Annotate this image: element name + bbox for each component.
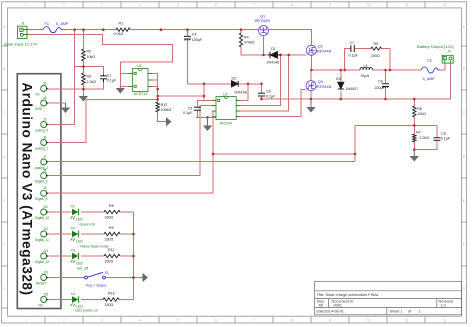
Arduino pin J8 (35, 168, 48, 183)
wire U2 VS riser (236, 55, 289, 111)
svg-text:red_off: red_off (77, 266, 88, 270)
svg-text:IRFZ44N: IRFZ44N (316, 85, 332, 89)
diode D3 (338, 82, 344, 89)
ground (U1) (117, 86, 124, 92)
svg-text:Q1: Q1 (260, 14, 265, 18)
svg-text:Solar Input 12-17V: Solar Input 12-17V (4, 41, 38, 46)
svg-text:5: 5 (177, 319, 179, 323)
svg-text:4: 4 (139, 3, 141, 7)
svg-text:100µF: 100µF (192, 38, 203, 42)
capacitor C1 (100, 75, 107, 83)
resistor R5 (371, 47, 382, 50)
op-amp U1 (ACS712 current sensor IC) (128, 69, 152, 92)
svg-text:C5: C5 (188, 106, 193, 110)
LED X1 (71, 209, 79, 219)
capacitor C9 (433, 138, 440, 141)
svg-text:F: F (3, 243, 5, 247)
svg-text:0.1µF: 0.1µF (349, 53, 359, 57)
connector J2 (442, 55, 453, 63)
svg-text:Digital_9: Digital_9 (35, 179, 48, 183)
svg-text:R11: R11 (108, 248, 114, 252)
wire solar- loop through U1 (24, 35, 173, 87)
svg-text:1: 1 (400, 310, 402, 314)
transistor Q1 (IRFZ44N) (259, 26, 269, 36)
wire R6 leads (413, 99, 415, 106)
node arrow (S1 row) (142, 274, 148, 281)
wire U2 pin1 riser (203, 84, 205, 101)
svg-text:330Ω: 330Ω (105, 259, 114, 263)
inductor L1 (360, 67, 372, 70)
svg-text:2: 2 (63, 319, 65, 323)
wire solar sense vertical to analog_0 (47, 30, 75, 125)
svg-text:6: 6 (215, 3, 217, 7)
svg-text:LED: LED (76, 239, 83, 243)
svg-text:analog_0: analog_0 (35, 128, 48, 132)
resistor R12 (156, 102, 159, 112)
wire analog_1 to U1 out node (47, 99, 158, 142)
svg-text:E: E (463, 199, 465, 203)
svg-text:J7: J7 (43, 155, 47, 159)
svg-text:D1: D1 (271, 47, 276, 51)
ground (divider R3) (80, 95, 87, 101)
svg-text:F1: F1 (45, 22, 49, 26)
Arduino pin J12 (35, 227, 49, 242)
Arduino pin J3 (35, 81, 48, 96)
svg-text:C6: C6 (266, 90, 271, 94)
LED X2 (71, 231, 79, 241)
diode D1 (268, 52, 281, 59)
svg-text:IR2104: IR2104 (220, 121, 232, 125)
top band ticks (45, 2, 425, 8)
svg-text:0.1µF: 0.1µF (441, 137, 451, 141)
svg-text:200Ω: 200Ω (371, 54, 380, 58)
svg-text:F2: F2 (428, 59, 432, 63)
diode D2 (232, 81, 239, 87)
wire GND J4 (47, 102, 66, 104)
svg-text:Key = Space: Key = Space (86, 284, 106, 288)
svg-text:E: E (3, 199, 5, 203)
svg-text:1N4148: 1N4148 (234, 91, 247, 95)
svg-text:R7: R7 (416, 131, 421, 135)
wire D3 leads (340, 70, 342, 82)
svg-text:X1: X1 (71, 205, 75, 209)
svg-text:J8: J8 (43, 168, 47, 172)
wire battery sense line (355, 125, 414, 161)
svg-text:R9: R9 (109, 226, 114, 230)
svg-text:Arduino Nano V3 (ATmega328): Arduino Nano V3 (ATmega328) (20, 82, 35, 295)
svg-text:1: 1 (25, 3, 27, 7)
svg-text:J3: J3 (43, 81, 47, 85)
resistor R2 (82, 49, 85, 61)
svg-text:L1: L1 (364, 64, 368, 68)
svg-text:J14: J14 (43, 249, 48, 253)
capacitor C4 (electrolytic) (184, 36, 191, 40)
capacitor C7 (351, 45, 354, 52)
svg-text:LED power on: LED power on (75, 309, 98, 313)
wire R4 leads (240, 30, 242, 33)
svg-text:220µF: 220µF (375, 86, 386, 90)
resistor R3 (82, 73, 85, 85)
wire C1 bottom / Vin row (47, 82, 104, 89)
svg-text:12: 12 (443, 3, 447, 7)
svg-text:J4: J4 (43, 96, 47, 100)
Arduino pin J11 (35, 205, 49, 220)
svg-text:0.01Ω: 0.01Ω (114, 32, 124, 36)
svg-text:R5: R5 (374, 42, 379, 46)
svg-text:analog_1: analog_1 (35, 146, 48, 150)
wire C4 / VCC feed (186, 30, 188, 36)
svg-text:100kΩ: 100kΩ (161, 108, 172, 112)
svg-text:10: 10 (367, 3, 371, 7)
svg-text:0.1µF: 0.1µF (107, 78, 117, 82)
svg-text:0.1µF: 0.1µF (183, 111, 193, 115)
svg-text:5: 5 (177, 3, 179, 7)
svg-text:J1: J1 (21, 21, 25, 25)
svg-text:R1: R1 (119, 22, 124, 26)
svg-text:330Ω: 330Ω (105, 303, 114, 307)
svg-text:S1: S1 (105, 271, 109, 275)
svg-text:D3: D3 (336, 77, 341, 81)
wire snubber C7/R5 (345, 49, 351, 70)
wire U1 left top stub (120, 73, 132, 75)
svg-text:X2: X2 (71, 227, 75, 231)
svg-text:Q3: Q3 (318, 80, 323, 84)
svg-text:1N4007: 1N4007 (346, 87, 359, 91)
svg-text:8: 8 (291, 319, 293, 323)
svg-text:10: 10 (367, 319, 371, 323)
fuse F2 (421, 67, 439, 73)
svg-text:11: 11 (405, 319, 409, 323)
svg-text:R3: R3 (87, 75, 92, 79)
svg-text:C7: C7 (350, 41, 355, 45)
svg-text:3: 3 (101, 3, 103, 7)
wire U2 pin3 row to Digital_8 (47, 111, 216, 193)
resistor R8 (104, 210, 120, 213)
svg-text:R6: R6 (417, 107, 422, 111)
wire U2 HO riser (236, 55, 280, 106)
svg-text:U2: U2 (223, 92, 228, 96)
svg-text:J5: J5 (43, 117, 47, 121)
svg-text:C9: C9 (441, 132, 446, 136)
svg-text:Q2: Q2 (318, 45, 323, 49)
right band ticks (462, 46, 467, 266)
svg-text:X4: X4 (71, 292, 75, 296)
svg-text:J13: J13 (43, 270, 48, 274)
title block (315, 281, 462, 315)
svg-text:J9: J9 (43, 186, 47, 190)
transistor Q3 (IRFZ44N) (306, 81, 316, 91)
svg-text:J15: J15 (43, 292, 48, 296)
svg-text:Battery Output (12V): Battery Output (12V) (417, 44, 454, 49)
svg-text:IRFZ44N: IRFZ44N (316, 50, 332, 54)
Arduino pin J4 (35, 96, 48, 111)
svg-text:LED: LED (76, 217, 83, 221)
wire switch node line (311, 69, 360, 71)
op-amp U2 (IR2104 gate driver) (212, 97, 240, 120)
LED X3 (71, 253, 79, 263)
Arduino pin J15 (38, 292, 49, 307)
svg-text:LED: LED (76, 261, 83, 265)
bottom band ticks (45, 316, 425, 323)
svg-text:3: 3 (101, 319, 103, 323)
svg-text:C4: C4 (192, 33, 197, 37)
Arduino pin J13 (36, 270, 48, 285)
svg-text:1.0: 1.0 (441, 304, 446, 308)
svg-text:2.2kΩ: 2.2kΩ (87, 80, 97, 84)
ground (Q3 source) (307, 99, 314, 112)
svg-text:X3: X3 (71, 249, 75, 253)
svg-text:R4: R4 (244, 35, 249, 39)
svg-text:7: 7 (253, 3, 255, 7)
svg-text:Sheet: Sheet (390, 310, 401, 314)
wire R7 leads (413, 125, 415, 134)
wire divider mid to C1 (75, 67, 104, 75)
ground (U2/C5) (204, 117, 211, 130)
svg-text:R16: R16 (108, 292, 115, 296)
svg-text:8: 8 (291, 3, 293, 7)
wire Q1 gate (263, 36, 265, 55)
wire U1 right stubs (148, 73, 158, 75)
svg-text:ACS712: ACS712 (134, 92, 148, 96)
wire LED row X4 (47, 299, 72, 301)
svg-text:330Ω: 330Ω (105, 237, 114, 241)
Arduino pin J5 (35, 117, 48, 132)
svg-text:J6: J6 (43, 135, 47, 139)
resistor R1 (116, 28, 130, 31)
svg-text:2: 2 (63, 3, 65, 7)
svg-text:A5: A5 (319, 304, 324, 308)
wire U2 pin1 row + C5 (197, 100, 216, 107)
svg-text:D2: D2 (232, 76, 237, 80)
svg-text:1: 1 (25, 319, 27, 323)
svg-text:1N4148: 1N4148 (267, 61, 280, 65)
svg-text:U1: U1 (137, 64, 142, 68)
svg-text:J2: J2 (447, 50, 451, 54)
wire U2 VB to bootstrap (236, 84, 248, 101)
transistor Q2 (IRFZ44N) (306, 45, 316, 55)
wire U2 pin2 row to Digital_9 (47, 106, 216, 176)
wire LED row X2 (47, 233, 72, 235)
wire U1 out vertical / R12 (157, 74, 159, 103)
switch S1 (85, 272, 106, 279)
LED X4 (71, 296, 79, 306)
Arduino pin J14 (35, 249, 49, 264)
svg-text:4: 4 (139, 319, 141, 323)
svg-text:R8: R8 (109, 204, 114, 208)
ground (R7/C9) (411, 150, 418, 161)
resistor R11 (104, 254, 120, 257)
svg-text:IRFZ44N: IRFZ44N (255, 19, 271, 23)
svg-text:R2: R2 (87, 50, 92, 54)
wire Q2 source to switch node (310, 55, 312, 70)
left band ticks (2, 46, 8, 308)
svg-text:33µH: 33µH (361, 74, 370, 78)
capacitor C5 (194, 107, 201, 110)
svg-text:Title: Solar charge schematic: Title: Solar charge schematics FINAL (317, 293, 380, 297)
svg-text:330Ω: 330Ω (105, 215, 114, 219)
wire C9 loop (414, 125, 437, 137)
wire upper sense branch (213, 153, 355, 155)
svg-text:9: 9 (329, 3, 331, 7)
Arduino pin J9 (35, 186, 48, 201)
svg-text:C1: C1 (107, 73, 112, 77)
svg-text:Yellow back mode: Yellow back mode (80, 244, 109, 248)
svg-text:F: F (463, 243, 465, 247)
svg-text:+5V: +5V (38, 303, 45, 307)
wire U2 LO to Q3 gate (236, 89, 306, 116)
wire LED row X3 (47, 255, 72, 257)
wire LED bus (133, 212, 135, 300)
fuse F1 (43, 27, 63, 33)
svg-text:9: 9 (329, 319, 331, 323)
Arduino Nano module box (17, 74, 61, 309)
svg-text:C8: C8 (378, 80, 383, 84)
svg-text:Digital_12: Digital_12 (35, 260, 49, 264)
wire ground rail (262, 63, 451, 99)
resistor R6 (413, 106, 416, 117)
svg-text:0001: 0001 (334, 304, 342, 308)
wire sense to analog_2 (47, 161, 355, 163)
resistor R4 (239, 33, 242, 47)
wire gate line D1 (241, 54, 268, 56)
svg-text:Digital_10: Digital_10 (35, 216, 49, 220)
Arduino pin J7 (35, 155, 48, 170)
wire switch row S1 (47, 277, 85, 279)
svg-text:11: 11 (405, 3, 409, 7)
svg-text:470kΩ: 470kΩ (244, 41, 255, 45)
wire C6 (261, 84, 263, 93)
wire Q3 drain / source (310, 70, 312, 80)
capacitor C6 (258, 93, 265, 96)
wire LED row X1 (47, 211, 72, 213)
connector J1 (18, 26, 29, 38)
svg-text:10kΩ: 10kΩ (417, 112, 426, 116)
wire divider R2/R3 string (82, 30, 84, 49)
svg-text:RESET: RESET (36, 281, 47, 285)
wire C8 leads (385, 70, 387, 84)
resistor R16 (103, 298, 119, 301)
svg-text:5_AMP: 5_AMP (56, 22, 69, 26)
svg-text:0.1µF: 0.1µF (266, 94, 276, 98)
Arduino pin J6 (35, 135, 48, 150)
wire D2 bootstrap line (187, 83, 231, 85)
svg-text:Digital_8: Digital_8 (35, 197, 48, 201)
svg-text:R12: R12 (161, 103, 168, 107)
resistor R7 (413, 134, 416, 142)
svg-text:10kΩ: 10kΩ (87, 55, 96, 59)
svg-text:GND: GND (35, 107, 43, 111)
capacitor C8 (electrolytic) (382, 84, 389, 88)
svg-text:Green On: Green On (80, 222, 96, 226)
ground (J4) (62, 103, 69, 112)
svg-text:12: 12 (443, 319, 447, 323)
resistor R9 (104, 232, 120, 235)
svg-text:1: 1 (418, 310, 420, 314)
svg-text:B: B (463, 67, 465, 71)
node arrow (R12 to ADC) (165, 118, 170, 125)
svg-text:Digital_11: Digital_11 (35, 238, 49, 242)
svg-text:2.2kΩ: 2.2kΩ (420, 136, 430, 140)
svg-text:B: B (3, 67, 5, 71)
wire node to U2 vcc riser (158, 95, 204, 97)
wire solar+ rail (24, 29, 44, 31)
svg-text:J12: J12 (43, 227, 48, 231)
svg-text:6: 6 (215, 319, 217, 323)
svg-text:Vin: Vin (35, 92, 40, 96)
svg-text:J11: J11 (43, 205, 48, 209)
svg-text:2014-08-01: 2014-08-01 (325, 310, 344, 314)
svg-text:5_AMP: 5_AMP (423, 77, 436, 81)
svg-text:7: 7 (253, 319, 255, 323)
